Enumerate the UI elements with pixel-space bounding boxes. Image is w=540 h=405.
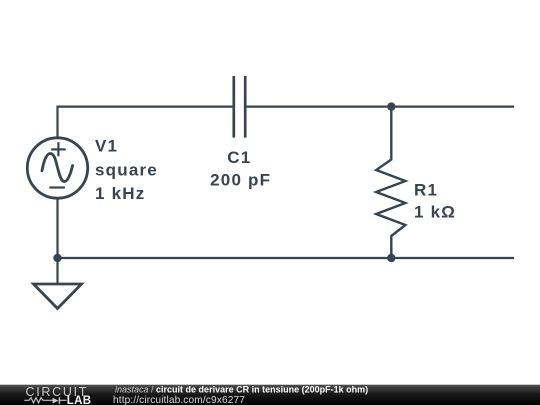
svg-text:LAB: LAB	[67, 395, 92, 405]
junction node A dot (top, R1)	[387, 102, 395, 110]
ground triangle symbol	[34, 284, 82, 309]
CircuitLab logo diode triangle	[53, 398, 59, 404]
wire top-right: capacitor C1 right plate to right end through node A	[246, 105, 514, 107]
CircuitLab logo zigzag-diode symbol	[24, 397, 66, 404]
svg-text:200 pF: 200 pF	[210, 170, 271, 189]
ground stem wire	[56, 258, 58, 284]
resistor R1 zigzag with top and bottom stubs	[376, 107, 405, 258]
capacitor C1 right plate	[244, 76, 247, 138]
svg-text:1 kHz: 1 kHz	[95, 184, 145, 203]
svg-text:C1: C1	[227, 148, 251, 167]
svg-text:R1: R1	[414, 181, 438, 200]
capacitor C1 left plate	[232, 76, 235, 138]
junction node B dot (bottom, V1/ground)	[53, 254, 61, 262]
svg-text:inastaca / circuit de derivare: inastaca / circuit de derivare CR in ten…	[115, 385, 368, 395]
footer black bar	[0, 385, 540, 405]
svg-text:1 kΩ: 1 kΩ	[414, 203, 456, 222]
V1 sine wave symbol	[42, 153, 73, 181]
wire top-left corner: V1 top to capacitor C1 left plate	[58, 107, 234, 138]
V1 plus sign	[51, 142, 65, 156]
junction node C dot (bottom, R1)	[387, 254, 395, 262]
svg-text:V1: V1	[95, 137, 118, 156]
voltage source V1 circle	[27, 138, 87, 198]
V1 minus sign	[49, 186, 65, 188]
wire bottom: node B to right end through node C	[58, 257, 515, 259]
svg-text:http://circuitlab.com/c9x6277: http://circuitlab.com/c9x6277	[113, 395, 245, 405]
wire V1 bottom to node B	[56, 199, 58, 259]
svg-text:square: square	[95, 161, 158, 180]
